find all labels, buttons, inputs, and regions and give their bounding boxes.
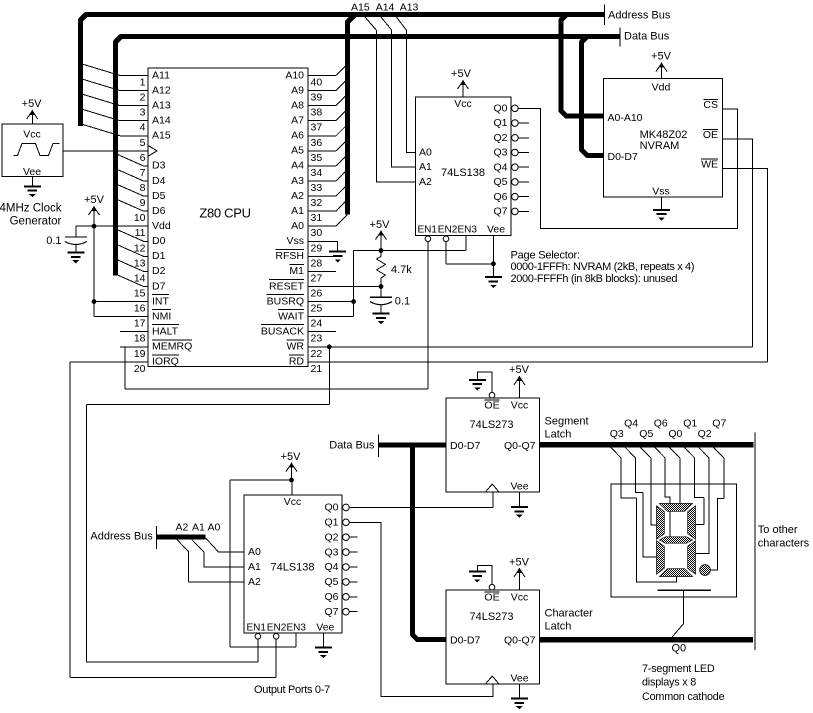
display common cathode bar <box>657 589 711 591</box>
svg-text:22: 22 <box>311 348 323 360</box>
svg-text:WE: WE <box>701 158 718 170</box>
wire: A2 to U4 <box>177 540 244 582</box>
wire: A0 to U4 <box>206 538 244 552</box>
svg-text:74LS273: 74LS273 <box>469 611 513 623</box>
wire: Q7 drop to decimal point <box>711 458 724 570</box>
svg-text:3: 3 <box>140 107 146 119</box>
wire: Q1 (port 1) to character latch clock <box>349 522 493 696</box>
svg-text:A13: A13 <box>400 2 419 14</box>
junction BUSRQ pullup <box>351 299 356 304</box>
junction +5V rail <box>379 248 384 253</box>
svg-text:A12: A12 <box>152 84 171 96</box>
svg-text:Q5: Q5 <box>324 576 338 588</box>
bus: segment bus U5 Q0-Q7 <box>540 442 754 448</box>
svg-text:Vee: Vee <box>23 166 41 178</box>
wire: +5V to U4 Vcc and EN3 <box>230 479 292 481</box>
wire: Vdd rail to INT and NMI pullup <box>76 225 148 227</box>
svg-text:Q0-Q7: Q0-Q7 <box>504 634 536 646</box>
svg-text:Q4: Q4 <box>493 161 507 173</box>
wire: Data Bus vertical into U6 D0-D7 <box>412 445 446 640</box>
junction on INT line <box>92 299 97 304</box>
U4 EN1 bubble <box>255 634 261 640</box>
display segment d <box>660 569 693 577</box>
wire: Address Bus (top trunk) <box>81 15 605 127</box>
display decimal point <box>700 565 711 576</box>
Z80 left pin stubs 1-20 <box>120 76 148 362</box>
svg-text:32: 32 <box>311 197 323 209</box>
svg-text:A3: A3 <box>291 175 304 187</box>
svg-text:Q0: Q0 <box>668 428 682 440</box>
wire: address bus drop to Z80 right-side pins <box>347 15 355 215</box>
U5 OE bubble <box>489 392 495 398</box>
wire: Z80 Vss to ground <box>336 240 338 242</box>
svg-text:INT: INT <box>152 295 170 307</box>
svg-text:Latch: Latch <box>545 620 572 632</box>
svg-text:Q6: Q6 <box>654 418 668 430</box>
wires: A10..A0 diagonals to address trunk (right) <box>336 64 348 226</box>
svg-text:A2: A2 <box>291 190 304 202</box>
svg-text:27: 27 <box>311 272 323 284</box>
wire: U2 Vee to ground <box>492 235 494 277</box>
U2 output labels Q0-Q7 <box>493 103 507 218</box>
svg-text:A1: A1 <box>291 205 304 217</box>
bus: character bus U6 Q0-Q7 <box>540 637 753 643</box>
svg-text:A0: A0 <box>291 220 304 232</box>
wire: Q2 drop to segment c <box>696 458 710 554</box>
wire: Address Bus tap trunk <box>156 535 205 540</box>
svg-text:OE: OE <box>703 129 718 141</box>
svg-text:7: 7 <box>140 167 146 179</box>
capacitor C1 0.1 (Vdd decoupling) <box>75 226 77 237</box>
svg-text:11: 11 <box>135 227 146 239</box>
svg-text:HALT: HALT <box>152 325 179 337</box>
wire: U3 Vss to ground <box>661 197 663 210</box>
ground (U2 Vee) <box>485 277 502 288</box>
svg-text:CS: CS <box>703 99 718 111</box>
Z80 clock input triangle pin 6 <box>148 145 157 156</box>
svg-text:17: 17 <box>134 318 146 330</box>
svg-text:Data Bus: Data Bus <box>624 30 670 42</box>
ground (U5 Vee) <box>511 507 528 518</box>
svg-text:EN1: EN1 <box>418 225 438 236</box>
svg-text:10: 10 <box>134 212 146 224</box>
ground (U4 Vee) <box>315 648 332 659</box>
ground (C1) <box>67 253 84 264</box>
svg-text:26: 26 <box>311 287 323 299</box>
wire: RD net to NVRAM WE <box>308 361 768 363</box>
display segment e <box>657 541 665 574</box>
display segment g <box>660 537 693 543</box>
svg-text:Address Bus: Address Bus <box>608 9 671 21</box>
svg-text:A10: A10 <box>285 69 304 81</box>
svg-text:Q1: Q1 <box>493 117 507 129</box>
svg-text:EN2: EN2 <box>438 225 458 236</box>
svg-text:IORQ: IORQ <box>152 356 179 368</box>
svg-text:Q4: Q4 <box>324 561 338 573</box>
svg-text:74LS138: 74LS138 <box>441 167 485 179</box>
svg-text:39: 39 <box>311 92 323 104</box>
svg-text:34: 34 <box>311 167 323 179</box>
svg-text:Q1: Q1 <box>683 418 697 430</box>
svg-text:M1: M1 <box>289 265 304 277</box>
svg-text:Vcc: Vcc <box>454 98 472 110</box>
svg-text:31: 31 <box>311 212 323 224</box>
svg-text:Segment: Segment <box>545 415 589 427</box>
svg-text:Data Bus: Data Bus <box>329 439 375 451</box>
svg-text:A0: A0 <box>248 546 261 558</box>
display segment b <box>688 506 696 539</box>
svg-text:A4: A4 <box>291 160 304 172</box>
wire: U5 OE to ground <box>477 372 492 393</box>
node: Address Bus tap tick <box>155 526 157 549</box>
svg-text:+5V: +5V <box>84 194 105 206</box>
svg-text:A11: A11 <box>152 69 170 81</box>
U2 output bubbles and stubs Q1-Q7 <box>512 120 529 215</box>
display DS1 box <box>611 484 737 597</box>
svg-text:A8: A8 <box>291 99 304 111</box>
svg-text:Q3: Q3 <box>324 546 338 558</box>
svg-text:Q0-Q7: Q0-Q7 <box>504 440 536 452</box>
ground (U6 OE) <box>469 572 486 583</box>
svg-text:OE: OE <box>484 399 499 411</box>
svg-text:A1: A1 <box>419 161 432 173</box>
svg-text:+5V: +5V <box>22 98 43 110</box>
wire: CS stub <box>723 108 738 110</box>
wire: A13 to page selector A0 <box>396 17 416 153</box>
wire: U6 OE to ground <box>477 565 492 584</box>
clock generator X1 box <box>2 124 63 177</box>
U4 Q1 bubble <box>343 519 350 526</box>
svg-text:EN1: EN1 <box>247 623 267 634</box>
svg-text:29: 29 <box>311 242 323 254</box>
svg-text:24: 24 <box>311 318 323 330</box>
svg-text:38: 38 <box>311 107 323 119</box>
wire: Q3 drop to segment d <box>621 458 676 582</box>
junction EN2/Vee ground <box>491 261 496 266</box>
display segment a <box>660 504 693 512</box>
svg-text:A14: A14 <box>152 115 171 127</box>
svg-text:Q5: Q5 <box>493 176 507 188</box>
wire: WE to RD net <box>723 168 768 362</box>
wire: U5 clock stem <box>492 492 494 507</box>
svg-text:+5V: +5V <box>651 51 672 63</box>
svg-text:8: 8 <box>140 182 146 194</box>
svg-text:Vdd: Vdd <box>652 82 671 94</box>
svg-text:D5: D5 <box>152 190 166 202</box>
U4 EN2 bubble <box>273 634 279 640</box>
wire: Q0 (port 0) to segment latch clock <box>349 506 493 508</box>
resistor R1 4.7k <box>377 251 386 287</box>
svg-text:+5V: +5V <box>281 451 302 463</box>
junction on Vdd line <box>92 224 97 229</box>
svg-text:+5V: +5V <box>509 556 530 568</box>
svg-text:Q7: Q7 <box>712 418 726 430</box>
svg-text:BUSRQ: BUSRQ <box>267 295 304 307</box>
svg-text:30: 30 <box>311 227 323 239</box>
svg-text:D0-D7: D0-D7 <box>450 440 481 452</box>
svg-text:74LS138: 74LS138 <box>270 562 314 574</box>
svg-text:9: 9 <box>140 197 146 209</box>
svg-text:0.1: 0.1 <box>395 296 410 308</box>
svg-text:A6: A6 <box>291 130 304 142</box>
svg-text:characters: characters <box>758 538 810 550</box>
svg-text:Q1: Q1 <box>324 517 338 529</box>
decoder U2 74LS138 (page selector) box <box>416 97 512 235</box>
wire: IORQ net to output decoder EN2 <box>70 361 148 363</box>
svg-text:Q5: Q5 <box>639 428 653 440</box>
svg-text:A9: A9 <box>291 84 304 96</box>
svg-text:Q0: Q0 <box>493 103 507 115</box>
svg-text:D6: D6 <box>152 205 166 217</box>
svg-text:4: 4 <box>140 122 146 134</box>
svg-text:2000-FFFFh (in 8kB blocks): un: 2000-FFFFh (in 8kB blocks): unused <box>511 273 678 285</box>
svg-text:D7: D7 <box>152 280 166 292</box>
junction WR branch <box>327 344 332 349</box>
wire: A15 to page selector A2 <box>365 17 416 182</box>
ground (U3 Vss) <box>653 210 670 221</box>
svg-text:Vdd: Vdd <box>152 220 171 232</box>
wire: address bus drop to NVRAM A0-A10 <box>561 15 604 117</box>
svg-text:Vss: Vss <box>286 235 304 247</box>
Z80 left pin numbers 1-20 <box>134 77 146 375</box>
U6 clock edge triangle <box>486 676 500 684</box>
wire: EN2 to ground rail <box>445 242 447 264</box>
node: Address Bus terminator tick <box>604 5 606 25</box>
wire: Q6 drop to segment g <box>665 458 670 537</box>
segment bus labels Q3 Q4 Q5 Q6 Q0 Q1 Q2 Q7 <box>610 418 727 440</box>
wire: U5 Vee to ground <box>518 492 520 507</box>
wire: Q1 drop to segment b <box>695 458 704 525</box>
ground (U6 Vee) <box>511 699 528 710</box>
node: Data Bus tap tick <box>377 435 379 457</box>
svg-text:A2: A2 <box>176 522 189 534</box>
node: to-other-characters tick <box>754 433 756 650</box>
svg-text:74LS273: 74LS273 <box>469 419 513 431</box>
svg-text:Vcc: Vcc <box>23 129 41 141</box>
wire: WR net to NVRAM OE and output latch enable <box>308 346 753 348</box>
svg-text:Z80 CPU: Z80 CPU <box>199 206 250 221</box>
svg-text:Q3: Q3 <box>610 428 624 440</box>
svg-text:Vcc: Vcc <box>511 591 529 603</box>
svg-text:15: 15 <box>134 287 146 299</box>
svg-text:Q2: Q2 <box>698 428 712 440</box>
wires: segment bus drops (diagonals) <box>611 447 724 458</box>
svg-text:Q6: Q6 <box>493 191 507 203</box>
wire: common cathode to character bus <box>672 590 683 637</box>
svg-text:A5: A5 <box>291 145 304 157</box>
svg-text:23: 23 <box>311 333 323 345</box>
ground (Z80 Vss) <box>329 252 346 263</box>
svg-text:Q7: Q7 <box>493 206 507 218</box>
U2 Q0 bubble <box>512 105 519 112</box>
svg-text:Vee: Vee <box>487 224 505 236</box>
node: Data Bus terminator tick <box>619 27 621 46</box>
Z80 left pin labels <box>152 69 192 367</box>
svg-text:A2: A2 <box>419 176 432 188</box>
Z80 right pin numbers 40-21 <box>311 77 323 375</box>
svg-text:1: 1 <box>140 77 146 89</box>
nvram U3 MK48Z02 box <box>604 79 723 198</box>
display segment c <box>688 541 696 574</box>
wire: MEMRQ net to page selector EN1 <box>125 346 148 348</box>
svg-text:Q2: Q2 <box>493 132 507 144</box>
wire: Q0 drop to segment a <box>679 458 681 505</box>
svg-text:6: 6 <box>140 152 146 164</box>
U4 Q0 bubble <box>343 504 350 511</box>
latch U6 74LS273 (character) box <box>446 590 540 684</box>
svg-text:Q2: Q2 <box>324 531 338 543</box>
svg-text:18: 18 <box>134 333 146 345</box>
svg-text:RFSH: RFSH <box>275 250 304 262</box>
svg-text:Q0: Q0 <box>672 643 687 655</box>
svg-text:D1: D1 <box>152 250 166 262</box>
svg-text:NMI: NMI <box>152 310 171 322</box>
svg-text:D0-D7: D0-D7 <box>450 634 481 646</box>
svg-text:A1: A1 <box>248 561 261 573</box>
svg-text:Vee: Vee <box>316 622 334 634</box>
svg-text:Vee: Vee <box>510 673 528 685</box>
svg-text:BUSACK: BUSACK <box>261 325 304 337</box>
svg-text:Q0: Q0 <box>324 502 338 514</box>
svg-text:NVRAM: NVRAM <box>640 140 680 152</box>
svg-text:Vcc: Vcc <box>511 399 529 411</box>
svg-text:D2: D2 <box>152 265 166 277</box>
wire: U6 Vee to ground <box>518 684 520 699</box>
svg-text:Vss: Vss <box>652 186 670 198</box>
svg-text:EN3: EN3 <box>458 225 478 236</box>
wire: EN3 to +5V rail <box>465 235 467 250</box>
svg-text:displays x 8: displays x 8 <box>642 677 696 689</box>
svg-text:7-segment LED: 7-segment LED <box>642 663 715 675</box>
svg-text:21: 21 <box>311 363 323 375</box>
svg-text:WAIT: WAIT <box>278 310 304 322</box>
wires: A11-A15 diagonals from address trunk <box>83 64 121 136</box>
wire: +5V rail to BUSRQ/WAIT and EN3 <box>354 250 466 252</box>
svg-text:36: 36 <box>311 137 323 149</box>
wire: Q4 drop to segment e <box>636 458 657 557</box>
wire: Data Bus (top trunk) <box>116 37 621 276</box>
wire: OE to WR net <box>723 139 753 347</box>
svg-text:EN2: EN2 <box>267 623 287 634</box>
svg-text:A0: A0 <box>208 522 221 534</box>
display segment f <box>657 506 665 539</box>
svg-text:EN3: EN3 <box>287 623 307 634</box>
svg-text:A15: A15 <box>152 130 171 142</box>
wire: Q5 drop to segment f <box>651 458 657 525</box>
svg-text:35: 35 <box>311 152 323 164</box>
svg-text:A1: A1 <box>192 522 205 534</box>
svg-text:MEMRQ: MEMRQ <box>152 341 192 353</box>
svg-text:D0: D0 <box>152 235 166 247</box>
svg-text:Q3: Q3 <box>493 147 507 159</box>
svg-text:+5V: +5V <box>509 364 530 376</box>
svg-text:5: 5 <box>140 137 146 149</box>
ground (clock gen) <box>31 177 33 187</box>
svg-text:28: 28 <box>311 257 323 269</box>
capacitor C2 0.1 (reset) <box>380 287 382 298</box>
svg-text:MK48Z02: MK48Z02 <box>640 129 688 141</box>
svg-text:Character: Character <box>545 607 594 619</box>
wire: EN1 to WR net <box>257 639 259 662</box>
svg-text:+5V: +5V <box>451 68 472 80</box>
svg-text:Q4: Q4 <box>624 418 638 430</box>
svg-text:RESET: RESET <box>269 280 305 292</box>
wires: D3,D4,D5,D6,D0,D1,D2,D7 diagonals from data trunk <box>118 154 144 286</box>
svg-text:Generator: Generator <box>10 216 62 228</box>
ground (U5 OE) <box>469 380 486 391</box>
junction +5V Vcc (U4) <box>289 478 294 483</box>
wire: Data Bus tap into U5 D0-D7 <box>378 443 446 448</box>
svg-text:D4: D4 <box>152 175 166 187</box>
latch U5 74LS273 (segment) box <box>446 398 540 492</box>
svg-text:A7: A7 <box>291 115 304 127</box>
svg-text:A13: A13 <box>152 99 171 111</box>
cpu U1 Z80 box <box>148 68 308 367</box>
ground (C2) <box>373 314 390 325</box>
svg-text:A14: A14 <box>376 2 395 14</box>
svg-text:RD: RD <box>289 356 305 368</box>
svg-text:Output Ports 0-7: Output Ports 0-7 <box>254 684 330 696</box>
wire: data bus drop to NVRAM D0-D7 <box>581 37 603 156</box>
svg-text:Vee: Vee <box>510 481 528 493</box>
svg-text:D0-D7: D0-D7 <box>608 151 639 163</box>
junction RC/RESET <box>379 284 384 289</box>
svg-text:37: 37 <box>311 122 323 134</box>
svg-text:Vcc: Vcc <box>284 496 302 508</box>
wire: A1 to U4 <box>192 540 244 568</box>
U5 clock edge triangle <box>486 484 500 492</box>
wire: clock output to Z80 pin 6 <box>63 150 148 152</box>
svg-text:40: 40 <box>311 77 323 89</box>
svg-text:Latch: Latch <box>545 429 572 441</box>
U6 OE bubble <box>489 584 495 590</box>
wire: RESET to RC junction <box>308 285 381 287</box>
U2 EN1 bubble <box>425 236 431 242</box>
svg-text:A15: A15 <box>351 2 370 14</box>
svg-text:Common cathode: Common cathode <box>642 691 725 703</box>
svg-text:Q6: Q6 <box>324 591 338 603</box>
U4 output labels Q0-Q7 <box>324 502 338 618</box>
svg-text:A2: A2 <box>248 576 261 588</box>
decoder U4 74LS138 (output ports) box <box>244 495 342 633</box>
svg-text:16: 16 <box>134 303 146 315</box>
svg-text:2: 2 <box>140 92 146 104</box>
svg-text:Q7: Q7 <box>324 606 338 618</box>
svg-text:OE: OE <box>484 591 499 603</box>
Z80 right pin labels <box>261 69 305 367</box>
wire: A14 to page selector A1 <box>381 17 416 168</box>
svg-text:33: 33 <box>311 182 323 194</box>
svg-text:D3: D3 <box>152 160 166 172</box>
clock waveform symbol <box>14 144 60 156</box>
U4 output bubbles and stubs Q2-Q7 <box>343 534 358 615</box>
wire: U4 Vee to ground <box>322 633 324 648</box>
Z80 right pin stubs 40-21 <box>308 76 336 362</box>
svg-text:25: 25 <box>311 303 323 315</box>
svg-text:20: 20 <box>134 363 146 375</box>
svg-text:0000-1FFFh: NVRAM (2kB, repeat: 0000-1FFFh: NVRAM (2kB, repeats x 4) <box>511 261 695 273</box>
svg-text:4MHz Clock: 4MHz Clock <box>0 203 62 215</box>
svg-text:A0: A0 <box>419 146 432 158</box>
svg-text:A0-A10: A0-A10 <box>608 112 643 124</box>
svg-text:0.1: 0.1 <box>46 235 61 247</box>
svg-text:To other: To other <box>758 524 798 536</box>
U2 EN2 bubble <box>443 236 449 242</box>
svg-text:Page Selector:: Page Selector: <box>511 249 580 261</box>
svg-text:+5V: +5V <box>370 219 391 231</box>
wire: Q0 to NVRAM CS (loop under NVRAM) <box>518 108 738 228</box>
svg-text:Address Bus: Address Bus <box>90 531 153 543</box>
